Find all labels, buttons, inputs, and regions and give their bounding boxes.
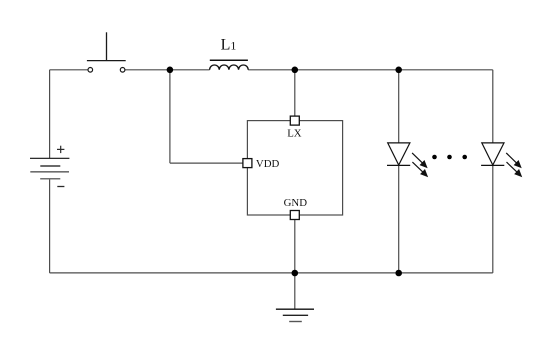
ellipsis dots (432, 155, 467, 160)
pin LX (290, 116, 299, 125)
wire horizontal into VDD pin (170, 162, 243, 164)
LED D1 (387, 143, 427, 176)
wire node A to inductor (170, 69, 210, 71)
pushbutton switch S1 (87, 32, 126, 72)
wire left vertical lower (49, 179, 51, 273)
pin GND (290, 211, 299, 220)
node C junction dot (395, 67, 402, 74)
battery B1 (30, 158, 69, 178)
wire node C to top-right corner (399, 69, 493, 71)
IC U1 body (247, 121, 342, 215)
node D junction dot (292, 270, 299, 277)
node B junction dot (292, 67, 299, 74)
wire switch to node A (125, 69, 170, 71)
wire bottom horizontal (50, 272, 493, 274)
wire node D down to ground (294, 273, 296, 309)
wire LED1 branch lower (398, 165, 400, 273)
label battery plus (57, 146, 64, 153)
pin VDD (243, 159, 252, 168)
wire left vertical upper (49, 70, 51, 159)
inductor L1 (210, 60, 249, 70)
ground (276, 309, 314, 321)
node E junction dot (395, 270, 402, 277)
wire GND pin down to node D (294, 220, 296, 273)
svg-text:GND: GND (284, 197, 308, 209)
node A junction dot (167, 67, 174, 74)
wire inductor to node B (248, 69, 295, 71)
LED D2 (481, 143, 521, 176)
wire node B to node C (295, 69, 399, 71)
wire LED1 branch upper (398, 70, 400, 143)
label battery minus (57, 186, 64, 188)
svg-text:L1: L1 (221, 36, 237, 53)
wire node B down to LX pin (294, 70, 296, 116)
wire node A down to VDD level (169, 70, 171, 163)
svg-text:LX: LX (287, 128, 302, 140)
wire right vertical lower (492, 165, 494, 273)
wire right vertical upper (492, 70, 494, 143)
wire top-left horizontal (50, 69, 88, 71)
svg-text:VDD: VDD (256, 158, 280, 170)
